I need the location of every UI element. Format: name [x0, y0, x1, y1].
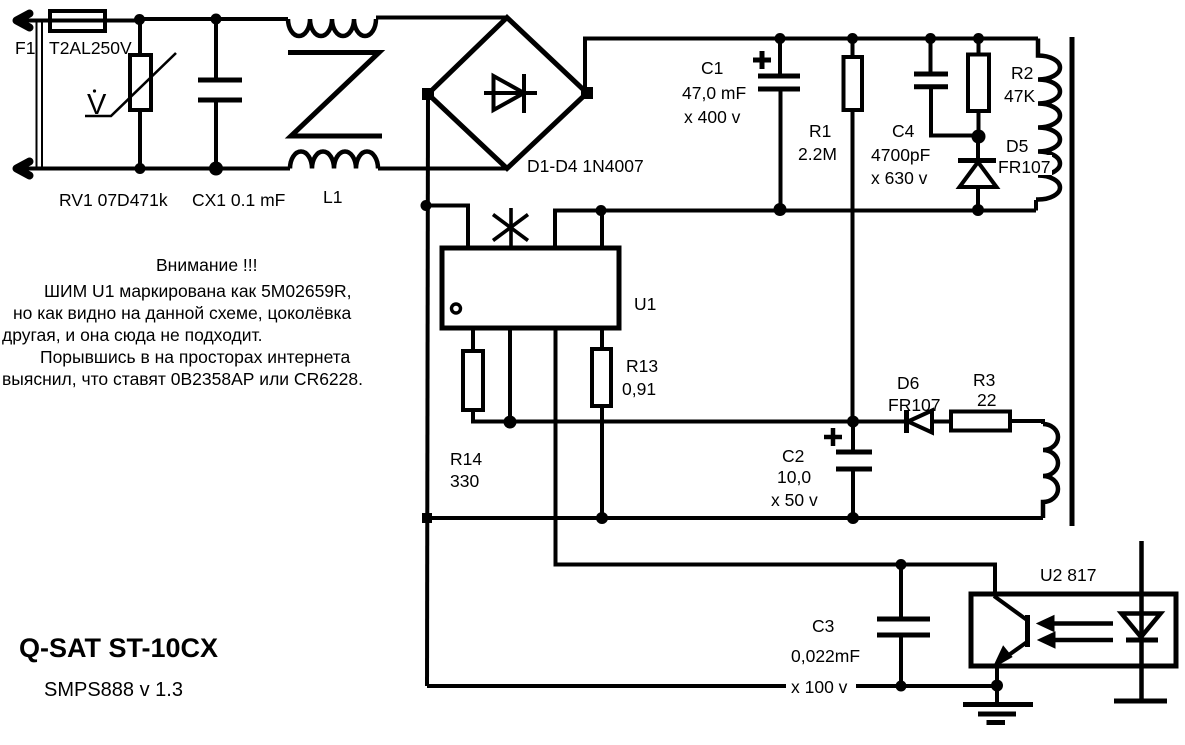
connector double line [37, 21, 43, 168]
svg-text:x 50 v: x 50 v [771, 490, 818, 510]
svg-text:C2: C2 [782, 446, 804, 466]
wire secondary return y518 [427, 516, 1043, 520]
svg-text:x 630 v: x 630 v [871, 168, 928, 188]
bridge inner diode symbol [484, 74, 537, 113]
svg-text:L1: L1 [323, 187, 342, 207]
U2 LED triangle [1122, 614, 1161, 638]
svg-text:47,0 mF: 47,0 mF [682, 83, 746, 103]
inductor L1 top winding [288, 19, 376, 36]
capacitor C1 plates [758, 76, 800, 89]
U2 emitter arrowhead [996, 649, 1010, 665]
resistor R1 body [844, 57, 863, 110]
capacitor C4 leads [931, 39, 979, 136]
svg-text:2.2M: 2.2M [798, 144, 837, 164]
resistor R2 leads [977, 39, 981, 137]
svg-text:R3: R3 [973, 370, 995, 390]
junction C3 top [896, 559, 907, 570]
capacitor C4 plates [914, 74, 948, 87]
svg-text:D1-D4 1N4007: D1-D4 1N4007 [527, 156, 644, 176]
svg-text:FR107: FR107 [998, 157, 1051, 177]
svg-text:0,022mF: 0,022mF [791, 646, 860, 666]
wire U1 pinD stub [600, 211, 604, 248]
svg-text:F1: F1 [15, 38, 35, 58]
varistor RV1 diagonal [85, 53, 176, 116]
resistor R13 leads [600, 328, 604, 518]
junction opto emitter ground [991, 680, 1003, 692]
resistor R14 leads [471, 328, 475, 351]
svg-text:0,91: 0,91 [622, 379, 656, 399]
junction left rail pinA [421, 200, 432, 211]
svg-text:R2: R2 [1011, 63, 1033, 83]
junction C3 bottom [896, 681, 907, 692]
svg-text:22: 22 [977, 390, 996, 410]
junction RV1 top [134, 14, 145, 25]
U2 LED vertical wire [1139, 541, 1144, 701]
label mask C3 x100v [786, 672, 856, 697]
junction pinD node [596, 205, 607, 216]
resistor R13 body [592, 349, 611, 406]
U2 light arrow 2 [1051, 638, 1113, 643]
arrow AC input bottom [17, 162, 30, 176]
U2 phototransistor collector [994, 596, 1027, 620]
wire RV1 vertical [138, 19, 142, 169]
bridge rectifier D1-D4 diamond [428, 18, 587, 169]
junction C1 bottom [774, 203, 787, 216]
junction CX1 top [211, 14, 222, 25]
U2 light arrow 1 [1050, 621, 1113, 626]
diode D6 symbol [853, 420, 951, 424]
bridge left vertex node [422, 88, 434, 100]
diode D5 lead and symbol [976, 137, 980, 211]
svg-text:Внимание !!!: Внимание !!! [156, 255, 258, 275]
capacitor C2 plus sign [824, 428, 842, 446]
transformer secondary winding [1043, 424, 1058, 518]
capacitor C2 plates [836, 452, 872, 469]
U2 emitter pin wire [995, 664, 999, 686]
svg-text:Q-SAT ST-10CX: Q-SAT ST-10CX [19, 633, 218, 663]
fuse F1 [50, 11, 105, 31]
svg-text:RV1 07D471k: RV1 07D471k [59, 190, 168, 210]
op-amp U1 PWM IC box [442, 248, 619, 328]
svg-text:C1: C1 [701, 58, 723, 78]
wire top AC rail to bridge [376, 16, 507, 20]
junction CX1 bottom [209, 162, 223, 176]
U2 LED bottom bar [1114, 699, 1167, 704]
wire R14 bottom to node C2 [473, 410, 853, 422]
transformer core line [1070, 37, 1075, 526]
junction left rail y518 [422, 513, 432, 523]
svg-text:R13: R13 [626, 356, 658, 376]
svg-text:Порывшись в на просторах интер: Порывшись в на просторах интернета [40, 347, 351, 367]
wire top AC rail left segment [22, 19, 288, 21]
U2 phototransistor emitter [999, 642, 1027, 662]
svg-text:330: 330 [450, 471, 479, 491]
capacitor CX1 plates [198, 80, 242, 100]
junction C4 top [925, 33, 936, 44]
wire bridge positive output to DC rail [585, 39, 1038, 94]
capacitor C3 leads [899, 565, 903, 687]
bottom ground rail [427, 684, 997, 688]
svg-text:R1: R1 [809, 121, 831, 141]
capacitor C1 lead wires [778, 39, 783, 210]
svg-text:C4: C4 [892, 121, 915, 141]
no-connect asterisk [493, 215, 528, 241]
resistor R3 body [951, 412, 1010, 431]
wire CX1 vertical [214, 19, 218, 169]
svg-text:V: V [87, 89, 107, 121]
arrow AC input top [17, 14, 30, 28]
junction D5 bottom [972, 204, 984, 216]
inductor L1 bottom winding [290, 152, 378, 169]
U2 LED cathode bar [1126, 638, 1158, 643]
bridge right vertex node [581, 87, 593, 99]
svg-text:CX1 0.1 mF: CX1 0.1 mF [192, 190, 285, 210]
svg-text:x 100 v: x 100 v [791, 677, 848, 697]
junction C1 top [775, 33, 786, 44]
svg-text:4700pF: 4700pF [871, 145, 930, 165]
resistor R2 body [968, 55, 989, 112]
junction R2 top [973, 33, 984, 44]
junction pin2 node [504, 416, 517, 429]
junction C2 D6 node [847, 416, 859, 428]
resistor R1 leads [851, 39, 855, 422]
resistor R14 body [463, 351, 483, 410]
wire left negative rail [427, 94, 428, 686]
junction R2 D5 C4 node [972, 130, 986, 144]
svg-text:R14: R14 [450, 449, 482, 469]
junction RV1 bottom [135, 163, 146, 174]
inductor L1 core Z [288, 53, 382, 137]
optocoupler U2 box [971, 594, 1176, 666]
U1 pin1 marker [452, 304, 461, 313]
wire bottom AC rail [22, 167, 507, 171]
capacitor C3 plates [877, 619, 930, 635]
junction R1 top [847, 33, 858, 44]
svg-text:10,0: 10,0 [777, 467, 811, 487]
wire U1 pin2 down [508, 328, 512, 422]
svg-text:ШИМ U1 маркирована как 5М02659: ШИМ U1 маркирована как 5М02659R, [44, 281, 352, 301]
svg-text:D5: D5 [1006, 136, 1028, 156]
varistor V ink speck [93, 89, 96, 92]
wire R3 to secondary winding [1010, 421, 1043, 424]
svg-text:47K: 47K [1004, 86, 1035, 106]
junction C2 bottom [847, 512, 859, 524]
wire pinA from left rail [426, 206, 468, 249]
wire U1 pin3 down to opto [556, 328, 996, 594]
svg-text:U2 817: U2 817 [1040, 565, 1096, 585]
capacitor C1 plus sign [753, 51, 771, 69]
U2 phototransistor base bar [1025, 615, 1030, 647]
svg-text:U1: U1 [634, 294, 656, 314]
svg-text:T2AL250V: T2AL250V [49, 38, 132, 58]
label mask D5 FR107 [996, 155, 1052, 175]
transformer primary winding [1036, 39, 1060, 200]
svg-text:SMPS888 v 1.3: SMPS888 v 1.3 [44, 679, 183, 701]
svg-text:другая, и она сюда не подходит: другая, и она сюда не подходит. [2, 325, 262, 345]
wire U1 pin asterisk stub [509, 208, 513, 248]
wire U1 pinC up and node wire to C1 D5 [555, 200, 1036, 248]
capacitor C2 leads [851, 422, 855, 519]
svg-text:выяснил, что ставят 0В2358АР и: выяснил, что ставят 0В2358АР или CR6228. [2, 369, 363, 389]
svg-text:C3: C3 [812, 616, 834, 636]
varistor RV1 body [130, 55, 151, 110]
svg-text:но как видно на данной схеме,: но как видно на данной схеме, цоколёвка [13, 303, 352, 323]
junction R13 bottom [596, 512, 608, 524]
svg-text:FR107: FR107 [888, 395, 941, 415]
svg-text:D6: D6 [897, 373, 919, 393]
ground symbol [995, 686, 999, 705]
svg-text:x 400 v: x 400 v [684, 107, 741, 127]
